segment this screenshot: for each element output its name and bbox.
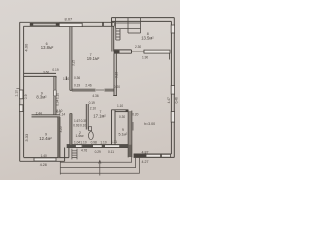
wire: bottom left wall — [20, 160, 65, 162]
svg-text:0.19: 0.19 — [89, 101, 95, 105]
window W5 right wall lower — [171, 112, 174, 123]
svg-text:0.46: 0.46 — [174, 97, 178, 103]
svg-text:8.3м²: 8.3м² — [36, 95, 47, 100]
svg-text:0.98: 0.98 — [91, 140, 97, 144]
wire: outer right wall — [173, 18, 175, 158]
svg-text:0.20: 0.20 — [114, 85, 120, 89]
svg-text:4.76: 4.76 — [81, 148, 87, 152]
wire: bottom middle wall — [67, 144, 129, 146]
window W2 top wall outlined — [59, 23, 82, 26]
interior wall V6 center corridor right — [112, 21, 118, 144]
svg-text:4.27: 4.27 — [142, 160, 149, 164]
svg-text:1.11: 1.11 — [111, 140, 117, 144]
svg-text:1.90: 1.90 — [142, 56, 148, 60]
svg-text:1.40: 1.40 — [41, 154, 47, 158]
pantry top wall dark jambs — [126, 110, 129, 112]
svg-text:3.23: 3.23 — [115, 72, 119, 78]
wire: jog between top walls — [111, 18, 113, 27]
svg-text:3.60: 3.60 — [43, 70, 49, 74]
wire: outer left wall — [19, 22, 21, 161]
wire: top wall right block — [112, 17, 175, 19]
cap of V6 at door — [113, 95, 117, 97]
door D7 bottom right wall — [146, 154, 161, 157]
openings in bottom middle wall — [76, 145, 83, 148]
svg-text:0.29: 0.29 — [95, 150, 101, 154]
svg-text:2.30: 2.30 — [135, 45, 141, 49]
faint open door line in H6 gap — [132, 51, 144, 53]
dark pier in H6 left — [114, 50, 120, 53]
svg-text:1.10: 1.10 — [100, 140, 106, 144]
svg-text:3.25: 3.25 — [71, 60, 75, 66]
wire: porch side wall vertical / pantry right wall — [127, 111, 129, 158]
window/opening in H6 right part — [144, 50, 170, 53]
wall pier left of W1 — [30, 23, 33, 26]
svg-text:12.4м²: 12.4м² — [39, 136, 52, 141]
staircase block top right — [116, 18, 141, 40]
svg-text:13.5м²: 13.5м² — [141, 36, 154, 41]
dark pier bottom right wall — [134, 154, 146, 157]
window W9 left wall lower — [19, 105, 23, 112]
interior wall V1 between room6 and room7 — [70, 26, 72, 144]
svg-text:0.11: 0.11 — [108, 150, 114, 154]
svg-text:2.46: 2.46 — [85, 83, 91, 87]
svg-text:4.28: 4.28 — [40, 163, 47, 167]
interior wall V3 room 12.4 right — [58, 117, 60, 158]
porch steps — [60, 157, 139, 175]
svg-text:0.30: 0.30 — [119, 115, 125, 119]
dim tick outside left wall — [16, 87, 19, 89]
porch entrance mini steps — [72, 149, 77, 160]
svg-text:4.36: 4.36 — [92, 94, 98, 98]
door leaf pantry — [132, 122, 134, 131]
svg-text:4.87: 4.87 — [142, 150, 149, 154]
interior wall H3 room7 bottom — [72, 89, 114, 91]
window W7b bottom right wall — [162, 154, 171, 157]
window W8 left wall upper — [19, 90, 23, 99]
wall stub below H6 right end — [169, 53, 171, 59]
svg-text:1.10: 1.10 — [117, 104, 123, 108]
wire: top wall left block outer — [20, 21, 114, 23]
wire: jamb at node x103 — [102, 22, 104, 26]
stair direction arrow — [99, 161, 101, 176]
svg-text:19.1м²: 19.1м² — [87, 56, 100, 61]
svg-text:17.1м²: 17.1м² — [93, 113, 106, 118]
svg-text:2.44: 2.44 — [36, 112, 42, 116]
stair lower flight rungs — [116, 31, 120, 40]
wall pier right of W1 — [56, 23, 60, 26]
wire: bottom right wall — [134, 156, 175, 158]
svg-text:0.20: 0.20 — [132, 113, 138, 117]
svg-text:0.10: 0.10 — [80, 124, 86, 128]
svg-text:8.07: 8.07 — [65, 17, 74, 22]
window small on V2 — [54, 90, 57, 96]
svg-text:0.19: 0.19 — [52, 68, 58, 72]
window W1 top wall — [33, 23, 56, 25]
dark pier bottom middle wall — [67, 145, 76, 148]
svg-text:4.00: 4.00 — [24, 43, 29, 52]
svg-text:13.8м²: 13.8м² — [41, 45, 54, 50]
toilet fixture — [89, 127, 94, 140]
core shading of V1 lower — [70, 114, 72, 145]
svg-text:0.9: 0.9 — [24, 94, 28, 99]
svg-text:3.25: 3.25 — [59, 126, 63, 132]
svg-text:1.10: 1.10 — [55, 93, 59, 99]
svg-text:1.10: 1.10 — [80, 140, 86, 144]
svg-text:0.94: 0.94 — [55, 99, 59, 105]
window W3 right wall upper — [171, 25, 174, 33]
svg-text:5.1м²: 5.1м² — [119, 132, 128, 136]
interior wall V2 room9 right — [54, 77, 56, 115]
svg-text:9: 9 — [122, 128, 124, 132]
window W6 bottom left wall — [34, 158, 56, 161]
svg-text:0.93: 0.93 — [73, 124, 79, 128]
svg-text:1.10: 1.10 — [63, 77, 69, 81]
svg-text:h=3.00: h=3.00 — [144, 122, 155, 126]
svg-text:1.67: 1.67 — [74, 119, 80, 123]
wire: top wall left block inner — [24, 25, 114, 27]
svg-text:1.14: 1.14 — [59, 112, 65, 116]
interior wall H6 room8 bottom — [114, 50, 144, 53]
svg-text:3.33: 3.33 — [24, 133, 29, 142]
svg-text:1.6м²: 1.6м² — [76, 134, 85, 138]
svg-text:2.10: 2.10 — [90, 107, 96, 111]
paper background — [0, 0, 180, 180]
door jamb stub node — [65, 76, 67, 80]
svg-text:4.47: 4.47 — [167, 97, 171, 103]
svg-text:0.36: 0.36 — [74, 76, 80, 80]
interior wall V5 WC right — [86, 104, 88, 130]
wire: left block jog vertical — [64, 148, 66, 162]
window W4 right wall middle — [171, 86, 174, 95]
svg-text:0.35: 0.35 — [81, 119, 87, 123]
svg-text:1.10: 1.10 — [15, 90, 19, 97]
pantry top wall — [112, 110, 129, 112]
svg-text:0.19: 0.19 — [74, 84, 80, 88]
interior wall H1 under room 6 — [24, 73, 67, 80]
small dims cluster — [36, 45, 179, 167]
interior wall H4 between 8.3 and 12.4 — [32, 115, 61, 117]
